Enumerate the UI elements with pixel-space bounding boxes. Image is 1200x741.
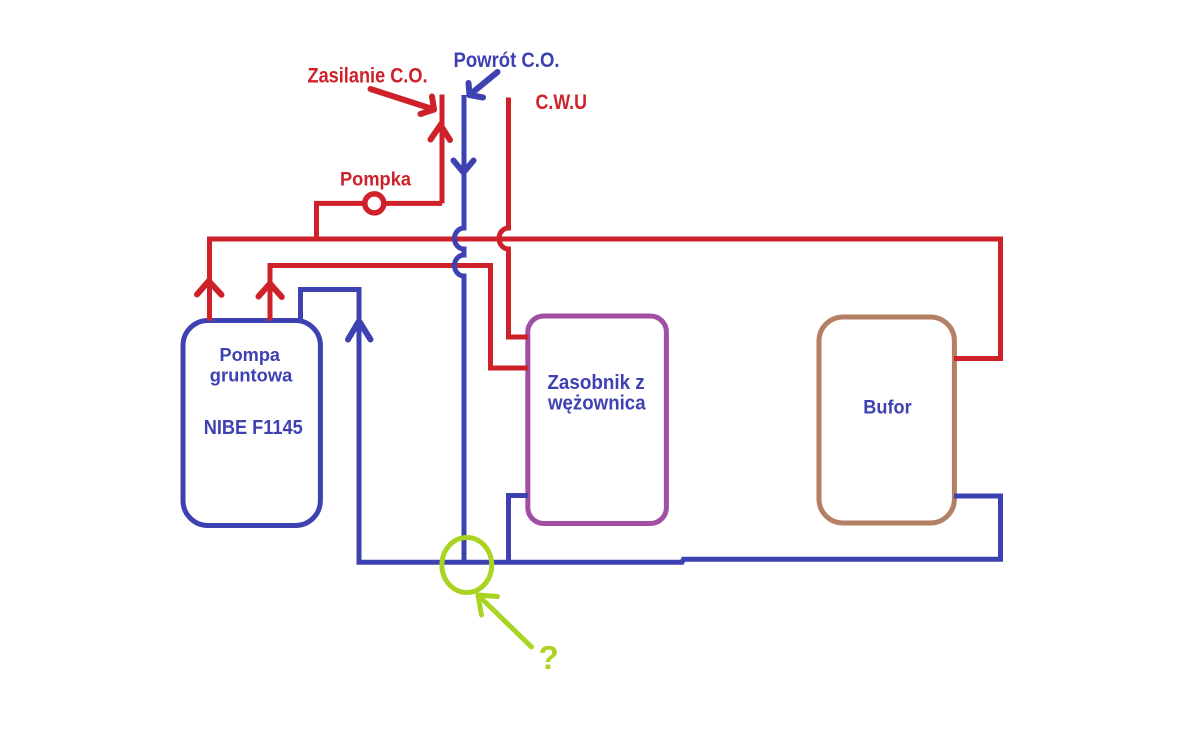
svg-text:Zasilanie C.O.: Zasilanie C.O.: [308, 64, 428, 88]
svg-text:Pompa: Pompa: [220, 345, 281, 365]
svg-text:gruntowa: gruntowa: [210, 366, 293, 386]
svg-text:Zasobnik z: Zasobnik z: [547, 372, 644, 394]
svg-text:Pompka: Pompka: [340, 170, 411, 191]
svg-text:NIBE F1145: NIBE F1145: [204, 416, 303, 439]
svg-text:Powrót C.O.: Powrót C.O.: [454, 48, 560, 72]
svg-text:Bufor: Bufor: [863, 397, 912, 419]
svg-text:?: ?: [539, 639, 559, 676]
svg-text:wężownica: wężownica: [547, 393, 646, 415]
svg-text:C.W.U: C.W.U: [536, 91, 588, 114]
